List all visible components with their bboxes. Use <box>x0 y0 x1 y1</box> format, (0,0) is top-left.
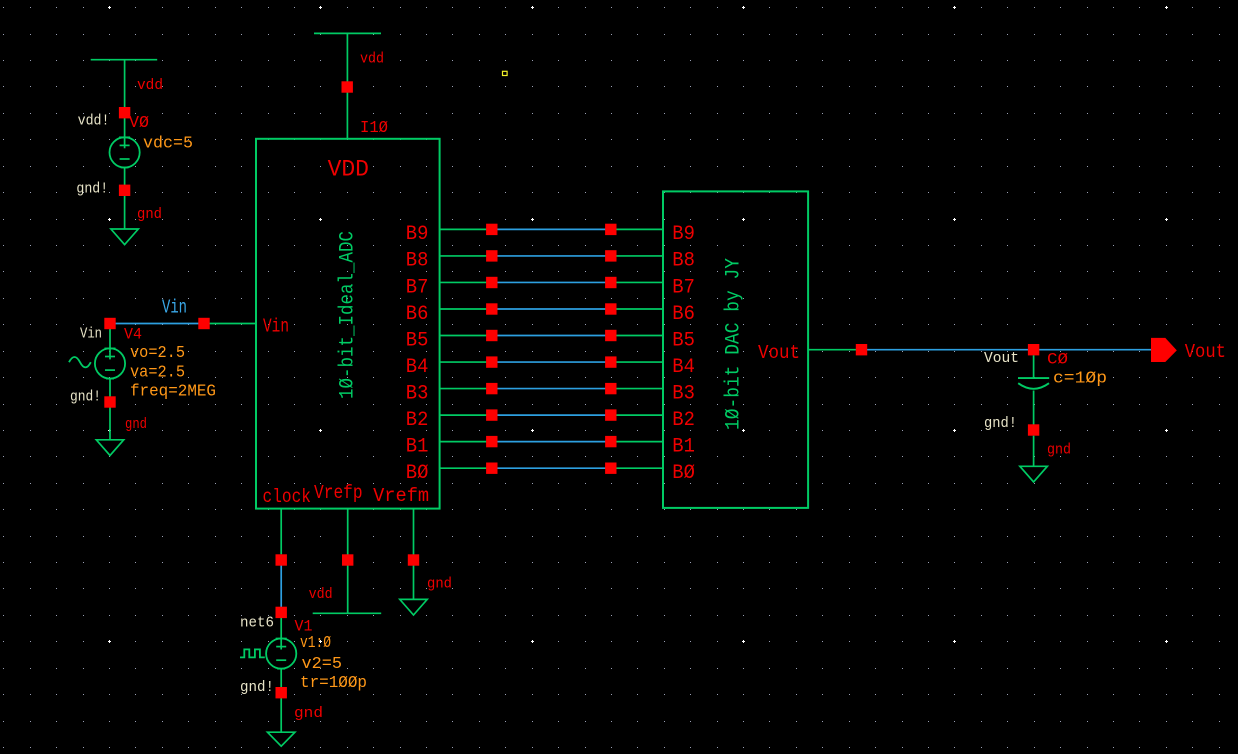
svg-text:B8: B8 <box>672 250 695 273</box>
svg-text:B2: B2 <box>672 409 695 432</box>
svg-text:V4: V4 <box>124 326 142 344</box>
svg-text:Vin: Vin <box>263 316 289 338</box>
svg-text:vdc=5: vdc=5 <box>143 134 193 153</box>
svg-text:gnd: gnd <box>137 206 162 223</box>
svg-text:Vin: Vin <box>162 297 187 319</box>
svg-text:B7: B7 <box>406 276 429 299</box>
svg-text:I1Ø: I1Ø <box>360 119 388 138</box>
svg-text:vdd!: vdd! <box>78 114 110 130</box>
svg-text:BØ: BØ <box>672 462 695 485</box>
svg-text:Vout: Vout <box>984 351 1019 367</box>
svg-text:B7: B7 <box>672 276 695 299</box>
svg-text:gnd!: gnd! <box>76 182 108 198</box>
svg-text:Vout: Vout <box>1185 341 1226 363</box>
svg-text:B4: B4 <box>406 356 429 379</box>
svg-text:B5: B5 <box>672 329 695 352</box>
svg-text:B3: B3 <box>672 382 695 405</box>
svg-text:B3: B3 <box>406 382 429 405</box>
svg-text:gnd: gnd <box>294 705 323 722</box>
svg-text:B1: B1 <box>672 435 695 458</box>
svg-text:VØ: VØ <box>129 113 149 132</box>
svg-text:net6: net6 <box>240 616 274 632</box>
svg-text:B1: B1 <box>406 435 429 458</box>
svg-text:vo=2.5: vo=2.5 <box>130 343 185 362</box>
svg-text:B6: B6 <box>406 303 429 326</box>
svg-text:B8: B8 <box>406 250 429 273</box>
svg-text:Vin: Vin <box>80 327 102 343</box>
svg-text:B6: B6 <box>672 303 695 326</box>
svg-text:v2=5: v2=5 <box>302 654 343 673</box>
svg-text:1Ø-bit_Ideal_ADC: 1Ø-bit_Ideal_ADC <box>337 231 360 399</box>
svg-text:clock: clock <box>263 486 312 508</box>
svg-text:freq=2MEG: freq=2MEG <box>130 382 216 401</box>
svg-text:Vrefm: Vrefm <box>373 485 429 507</box>
svg-text:vdd: vdd <box>137 77 163 94</box>
svg-text:B5: B5 <box>406 329 429 352</box>
svg-text:1Ø-bit DAC by JY: 1Ø-bit DAC by JY <box>723 258 746 430</box>
svg-text:gnd: gnd <box>427 576 452 593</box>
svg-text:vdd: vdd <box>309 586 333 603</box>
svg-text:B2: B2 <box>406 409 429 432</box>
svg-text:v1:Ø: v1:Ø <box>300 633 331 652</box>
svg-text:BØ: BØ <box>406 462 429 485</box>
svg-text:tr=1ØØp: tr=1ØØp <box>300 673 367 692</box>
svg-text:gnd!: gnd! <box>70 390 101 406</box>
svg-text:gnd!: gnd! <box>240 680 274 696</box>
svg-text:va=2.5: va=2.5 <box>130 363 185 382</box>
svg-text:gnd!: gnd! <box>984 416 1017 432</box>
svg-text:vdd: vdd <box>360 51 384 68</box>
svg-text:gnd: gnd <box>1047 442 1071 459</box>
svg-text:Vout: Vout <box>758 342 800 364</box>
svg-text:c=1Øp: c=1Øp <box>1053 369 1107 388</box>
svg-text:VDD: VDD <box>328 157 369 183</box>
svg-text:B4: B4 <box>672 356 695 379</box>
svg-text:Vrefp: Vrefp <box>314 482 363 504</box>
svg-text:gnd: gnd <box>125 416 147 433</box>
svg-text:CØ: CØ <box>1047 351 1068 369</box>
svg-text:B9: B9 <box>406 223 429 246</box>
svg-text:B9: B9 <box>672 223 695 246</box>
